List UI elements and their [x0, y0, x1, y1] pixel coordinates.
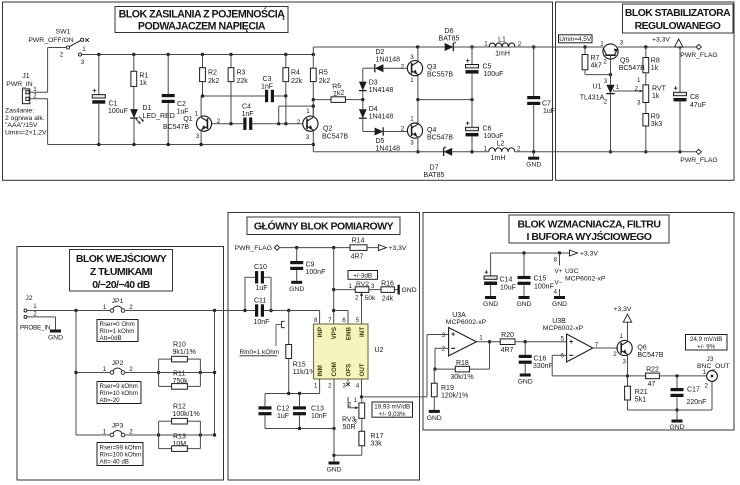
- svg-text:2: 2: [518, 41, 522, 48]
- svg-text:+: +: [484, 267, 489, 276]
- svg-text:3k3: 3k3: [651, 121, 662, 128]
- svg-text:C11: C11: [254, 297, 266, 304]
- svg-text:BC547B: BC547B: [427, 135, 453, 142]
- svg-text:PWR_FLAG: PWR_FLAG: [680, 52, 717, 59]
- svg-text:R4: R4: [291, 70, 300, 77]
- svg-text:+3,3V: +3,3V: [652, 37, 670, 44]
- svg-text:D2: D2: [376, 49, 385, 56]
- svg-text:2: 2: [705, 383, 709, 390]
- svg-text:C15: C15: [534, 276, 547, 283]
- svg-text:1mH: 1mH: [491, 155, 506, 162]
- svg-text:+: +: [466, 56, 471, 65]
- svg-text:24,9 mV/dB: 24,9 mV/dB: [690, 336, 722, 343]
- svg-text:1: 1: [616, 84, 620, 91]
- svg-text:R1: R1: [139, 73, 148, 80]
- svg-text:+: +: [92, 86, 97, 95]
- svg-text:GŁÓWNY BLOK POMIAROWY: GŁÓWNY BLOK POMIAROWY: [254, 220, 394, 233]
- svg-text:4k7: 4k7: [591, 63, 602, 70]
- svg-text:OFS: OFS: [345, 364, 352, 377]
- svg-text:INT: INT: [359, 327, 366, 337]
- svg-text:1: 1: [82, 46, 86, 53]
- svg-text:RVT: RVT: [652, 86, 667, 93]
- svg-text:5: 5: [561, 336, 565, 343]
- svg-text:19,93 mV/dB: 19,93 mV/dB: [374, 404, 410, 411]
- svg-text:2: 2: [635, 86, 639, 93]
- svg-text:1k: 1k: [651, 65, 659, 72]
- svg-text:RIn=100 kOhm: RIn=100 kOhm: [100, 452, 142, 459]
- svg-text:R16: R16: [381, 280, 394, 287]
- svg-text:Umin=4,5V: Umin=4,5V: [559, 36, 592, 43]
- svg-text:MCP6002-xP: MCP6002-xP: [565, 275, 606, 282]
- svg-text:2: 2: [401, 63, 405, 70]
- svg-text:U3B: U3B: [552, 318, 566, 325]
- svg-text:MCP6002-xP: MCP6002-xP: [446, 319, 487, 326]
- svg-text:R9: R9: [651, 114, 660, 121]
- svg-text:1k: 1k: [139, 80, 147, 87]
- svg-text:Umin=2×1,2V: Umin=2×1,2V: [5, 129, 47, 136]
- svg-text:30k/1%: 30k/1%: [450, 374, 473, 381]
- svg-text:2: 2: [604, 99, 608, 106]
- svg-text:1nF: 1nF: [241, 111, 253, 118]
- svg-text:50k: 50k: [365, 295, 377, 302]
- svg-text:Rser=99 kOhm: Rser=99 kOhm: [100, 445, 142, 452]
- svg-text:10M: 10M: [173, 441, 187, 448]
- svg-text:2: 2: [348, 401, 352, 408]
- svg-text:R10: R10: [173, 342, 186, 349]
- svg-text:1mH: 1mH: [495, 51, 510, 58]
- svg-text:2: 2: [613, 351, 617, 358]
- svg-text:0/−20/−40 dB: 0/−20/−40 dB: [92, 279, 151, 291]
- svg-text:BLOK WZMACNIACZA, FILTRU: BLOK WZMACNIACZA, FILTRU: [518, 219, 661, 231]
- svg-text:100nF: 100nF: [306, 269, 326, 276]
- svg-text:GND: GND: [518, 379, 533, 386]
- svg-text:D5: D5: [376, 138, 385, 145]
- svg-text:GND: GND: [552, 301, 567, 308]
- svg-text:2: 2: [517, 145, 521, 152]
- svg-text:+/- 9%: +/- 9%: [697, 343, 716, 350]
- svg-text:2: 2: [297, 119, 301, 126]
- svg-text:I BUFORA WYJŚCIOWEGO: I BUFORA WYJŚCIOWEGO: [527, 230, 652, 243]
- svg-text:5k1: 5k1: [635, 396, 646, 403]
- svg-text:3: 3: [410, 139, 414, 146]
- svg-text:1uF: 1uF: [277, 413, 289, 420]
- svg-text:V−: V−: [555, 280, 563, 287]
- svg-text:SW1: SW1: [56, 29, 71, 36]
- svg-text:10uF: 10uF: [500, 285, 516, 292]
- svg-text:JP2: JP2: [112, 360, 124, 367]
- svg-text:C3: C3: [263, 76, 272, 83]
- svg-text:1: 1: [479, 335, 483, 342]
- svg-text:D3: D3: [369, 80, 378, 87]
- svg-text:+/-3dB: +/-3dB: [353, 273, 372, 280]
- svg-text:ENB: ENB: [345, 326, 352, 340]
- svg-text:+: +: [674, 84, 679, 93]
- svg-text:R19: R19: [441, 385, 454, 392]
- svg-text:4R7: 4R7: [501, 347, 514, 354]
- svg-text:2: 2: [129, 429, 133, 436]
- svg-text:C2: C2: [177, 101, 186, 108]
- svg-text:6: 6: [561, 353, 565, 360]
- svg-text:GND: GND: [483, 301, 498, 308]
- svg-text:10nF: 10nF: [311, 413, 327, 420]
- svg-text:3: 3: [81, 59, 85, 66]
- svg-text:2 ogniwa alk.: 2 ogniwa alk.: [5, 115, 45, 122]
- svg-text:J3: J3: [706, 356, 713, 363]
- svg-text:1N4148: 1N4148: [369, 114, 394, 121]
- svg-text:D6: D6: [445, 28, 454, 35]
- svg-text:C17: C17: [687, 387, 700, 394]
- svg-text:1uF: 1uF: [543, 108, 555, 115]
- svg-text:+3,3V: +3,3V: [580, 251, 598, 258]
- svg-text:Att=-20: Att=-20: [100, 397, 121, 404]
- svg-text:3: 3: [306, 134, 310, 141]
- svg-text:C7: C7: [542, 101, 551, 108]
- svg-text:GND: GND: [402, 287, 417, 294]
- svg-text:2: 2: [401, 126, 405, 133]
- svg-text:R8: R8: [651, 58, 660, 65]
- svg-text:R11: R11: [173, 371, 185, 378]
- svg-text:D4: D4: [369, 106, 378, 113]
- svg-text:R2: R2: [208, 70, 217, 77]
- svg-text:10nF: 10nF: [254, 319, 270, 326]
- svg-text:1: 1: [103, 304, 107, 311]
- svg-text:4R7: 4R7: [351, 254, 364, 261]
- svg-text:C10: C10: [254, 264, 267, 271]
- svg-text:+: +: [451, 332, 455, 339]
- svg-text:+/- 9,03%: +/- 9,03%: [379, 411, 406, 418]
- svg-text:L1: L1: [498, 37, 506, 44]
- svg-text:1: 1: [637, 77, 641, 84]
- svg-text:PWR_FLAG: PWR_FLAG: [680, 157, 717, 164]
- svg-text:PROBE_IN: PROBE_IN: [20, 325, 51, 332]
- svg-text:C5: C5: [483, 64, 492, 71]
- svg-text:U3A: U3A: [452, 312, 466, 319]
- svg-text:1nF: 1nF: [261, 84, 273, 91]
- svg-text:MCP6002-xP: MCP6002-xP: [543, 325, 584, 332]
- svg-text:BAT85: BAT85: [424, 172, 445, 179]
- svg-text:BC547B: BC547B: [322, 134, 348, 141]
- svg-text:2: 2: [217, 118, 221, 125]
- svg-text:GND: GND: [289, 286, 304, 293]
- svg-text:120k/1%: 120k/1%: [441, 392, 468, 399]
- svg-text:R15: R15: [293, 362, 306, 369]
- svg-text:"AAA"/15V: "AAA"/15V: [5, 122, 38, 129]
- svg-text:Att=-40 dB: Att=-40 dB: [100, 459, 129, 466]
- svg-text:PWR_IN: PWR_IN: [6, 81, 33, 88]
- svg-text:2: 2: [355, 294, 359, 301]
- svg-text:GND: GND: [427, 415, 442, 422]
- svg-text:7: 7: [595, 341, 599, 348]
- svg-text:R7: R7: [591, 55, 600, 62]
- svg-text:+3,3V: +3,3V: [389, 245, 407, 252]
- svg-text:BLOK ZASILANIA Z POJEMNOŚCIĄ: BLOK ZASILANIA Z POJEMNOŚCIĄ: [119, 8, 286, 21]
- svg-text:VPS: VPS: [331, 327, 338, 339]
- svg-text:J2: J2: [25, 295, 32, 302]
- svg-text:R21: R21: [635, 389, 648, 396]
- svg-text:3: 3: [623, 359, 627, 366]
- svg-text:33k: 33k: [371, 440, 383, 447]
- svg-text:C4: C4: [242, 104, 251, 111]
- svg-text:R17: R17: [371, 433, 384, 440]
- svg-text:1N4148: 1N4148: [376, 57, 401, 64]
- svg-text:1: 1: [306, 108, 310, 115]
- svg-text:R13: R13: [173, 434, 186, 441]
- svg-text:1N4148: 1N4148: [369, 87, 394, 94]
- svg-text:1: 1: [195, 111, 199, 118]
- svg-text:22k: 22k: [237, 78, 249, 85]
- svg-text:3: 3: [620, 40, 624, 47]
- svg-text:1: 1: [354, 397, 358, 404]
- svg-text:750k: 750k: [173, 378, 189, 385]
- svg-text:100nF: 100nF: [534, 284, 554, 291]
- svg-text:C16: C16: [534, 355, 547, 362]
- svg-text:R22: R22: [646, 367, 659, 374]
- svg-text:C9: C9: [306, 262, 315, 269]
- svg-text:2k2: 2k2: [319, 78, 330, 85]
- svg-text:PODWAJACZEM NAPIĘCIA: PODWAJACZEM NAPIĘCIA: [138, 21, 266, 33]
- svg-text:100uF: 100uF: [108, 108, 128, 115]
- svg-text:GND: GND: [516, 301, 531, 308]
- svg-text:JP1: JP1: [112, 298, 124, 305]
- svg-text:JP3: JP3: [112, 423, 124, 430]
- svg-text:1: 1: [410, 77, 414, 84]
- svg-text:BLOK STABILIZATORA: BLOK STABILIZATORA: [625, 8, 731, 19]
- svg-text:1: 1: [103, 366, 107, 373]
- svg-text:R12: R12: [173, 404, 186, 411]
- svg-text:47uF: 47uF: [690, 102, 706, 109]
- svg-text:U2: U2: [375, 347, 384, 354]
- svg-text:INP: INP: [317, 327, 324, 337]
- svg-text:Zasilanie:: Zasilanie:: [5, 108, 34, 115]
- svg-text:2: 2: [60, 52, 64, 59]
- svg-text:3: 3: [637, 100, 641, 107]
- svg-text:220nF: 220nF: [687, 399, 707, 406]
- svg-text:3: 3: [196, 133, 200, 140]
- svg-text:2: 2: [442, 346, 446, 353]
- svg-text:D1: D1: [143, 105, 152, 112]
- svg-text:RV2: RV2: [356, 281, 369, 288]
- svg-text:GND: GND: [48, 335, 63, 342]
- svg-text:LED_RED: LED_RED: [143, 113, 175, 120]
- svg-text:+: +: [466, 119, 471, 128]
- svg-text:V+: V+: [555, 268, 563, 275]
- svg-text:C6: C6: [483, 126, 492, 133]
- svg-text:9k1/1%: 9k1/1%: [173, 349, 196, 356]
- svg-text:TL431A: TL431A: [580, 95, 605, 102]
- svg-text:R5: R5: [319, 70, 328, 77]
- svg-text:100uF: 100uF: [484, 133, 504, 140]
- svg-text:R14: R14: [352, 238, 365, 245]
- svg-text:BLOK WEJŚCIOWY: BLOK WEJŚCIOWY: [76, 252, 167, 265]
- svg-text:C12: C12: [277, 406, 290, 413]
- svg-text:D7: D7: [430, 165, 439, 172]
- svg-text:Q4: Q4: [427, 127, 436, 134]
- svg-text:RIn0=1 kOhm: RIn0=1 kOhm: [240, 349, 280, 356]
- svg-text:1: 1: [484, 41, 488, 48]
- svg-text:3: 3: [442, 332, 446, 339]
- svg-text:1: 1: [103, 429, 107, 436]
- svg-text:C8: C8: [690, 94, 699, 101]
- svg-text:3: 3: [410, 54, 414, 61]
- svg-text:*: *: [444, 144, 447, 153]
- svg-text:1: 1: [349, 283, 353, 290]
- svg-text:C13: C13: [311, 406, 324, 413]
- svg-text:BC547B: BC547B: [619, 65, 645, 72]
- svg-text:J1: J1: [22, 73, 30, 80]
- svg-text:1: 1: [33, 303, 37, 310]
- svg-text:INM: INM: [317, 365, 324, 376]
- svg-text:GND: GND: [526, 162, 541, 169]
- svg-text:R3: R3: [237, 70, 246, 77]
- svg-text:1uF: 1uF: [256, 285, 268, 292]
- svg-text:2k2: 2k2: [208, 78, 219, 85]
- svg-text:R18: R18: [456, 360, 469, 367]
- svg-text:47: 47: [648, 381, 656, 388]
- svg-text:1k: 1k: [652, 93, 660, 100]
- svg-text:COM: COM: [331, 362, 338, 376]
- svg-text:1: 1: [600, 41, 604, 48]
- svg-text:2: 2: [129, 304, 133, 311]
- svg-text:2: 2: [603, 59, 607, 66]
- svg-text:3: 3: [604, 78, 608, 85]
- svg-text:BC557B: BC557B: [427, 71, 453, 78]
- svg-text:1: 1: [484, 145, 488, 152]
- svg-text:R20: R20: [501, 332, 514, 339]
- svg-text:REGULOWANEGO: REGULOWANEGO: [635, 21, 721, 32]
- svg-text:BC547B: BC547B: [637, 352, 663, 359]
- svg-text:3: 3: [354, 418, 358, 425]
- svg-text:100uF: 100uF: [484, 71, 504, 78]
- svg-text:Q3: Q3: [427, 64, 436, 71]
- svg-text:+3,3V: +3,3V: [614, 306, 632, 313]
- svg-text:Q2: Q2: [323, 126, 332, 133]
- svg-text:2: 2: [129, 366, 133, 373]
- svg-text:11k/1%: 11k/1%: [293, 369, 316, 376]
- svg-text:22k: 22k: [291, 78, 303, 85]
- svg-text:C1: C1: [109, 101, 118, 108]
- svg-text:L2: L2: [497, 140, 505, 147]
- svg-text:+: +: [569, 339, 573, 346]
- svg-text:Q6: Q6: [637, 344, 646, 351]
- svg-text:1: 1: [620, 333, 624, 340]
- svg-text:Q5: Q5: [620, 58, 629, 65]
- svg-text:1: 1: [410, 116, 414, 123]
- svg-text:PWR_FLAG: PWR_FLAG: [235, 245, 272, 252]
- svg-text:BC547B: BC547B: [163, 124, 189, 131]
- svg-text:100k/1%: 100k/1%: [173, 411, 200, 418]
- svg-text:330nF: 330nF: [533, 363, 553, 370]
- svg-text:1uF: 1uF: [177, 109, 189, 116]
- svg-text:Att=0dB: Att=0dB: [100, 335, 122, 342]
- svg-text:Z TŁUMIKAMI: Z TŁUMIKAMI: [90, 266, 153, 278]
- svg-text:PWR_OFF/ON: PWR_OFF/ON: [28, 37, 73, 44]
- svg-text:Q1: Q1: [183, 116, 192, 123]
- svg-text:C14: C14: [500, 277, 513, 284]
- svg-text:OUT: OUT: [359, 363, 366, 376]
- svg-text:U3C: U3C: [565, 268, 579, 275]
- svg-text:U1: U1: [593, 84, 602, 91]
- svg-text:1: 1: [703, 369, 707, 376]
- svg-text:GND: GND: [326, 467, 341, 474]
- svg-text:24k: 24k: [382, 296, 394, 303]
- svg-text:GND: GND: [669, 424, 684, 431]
